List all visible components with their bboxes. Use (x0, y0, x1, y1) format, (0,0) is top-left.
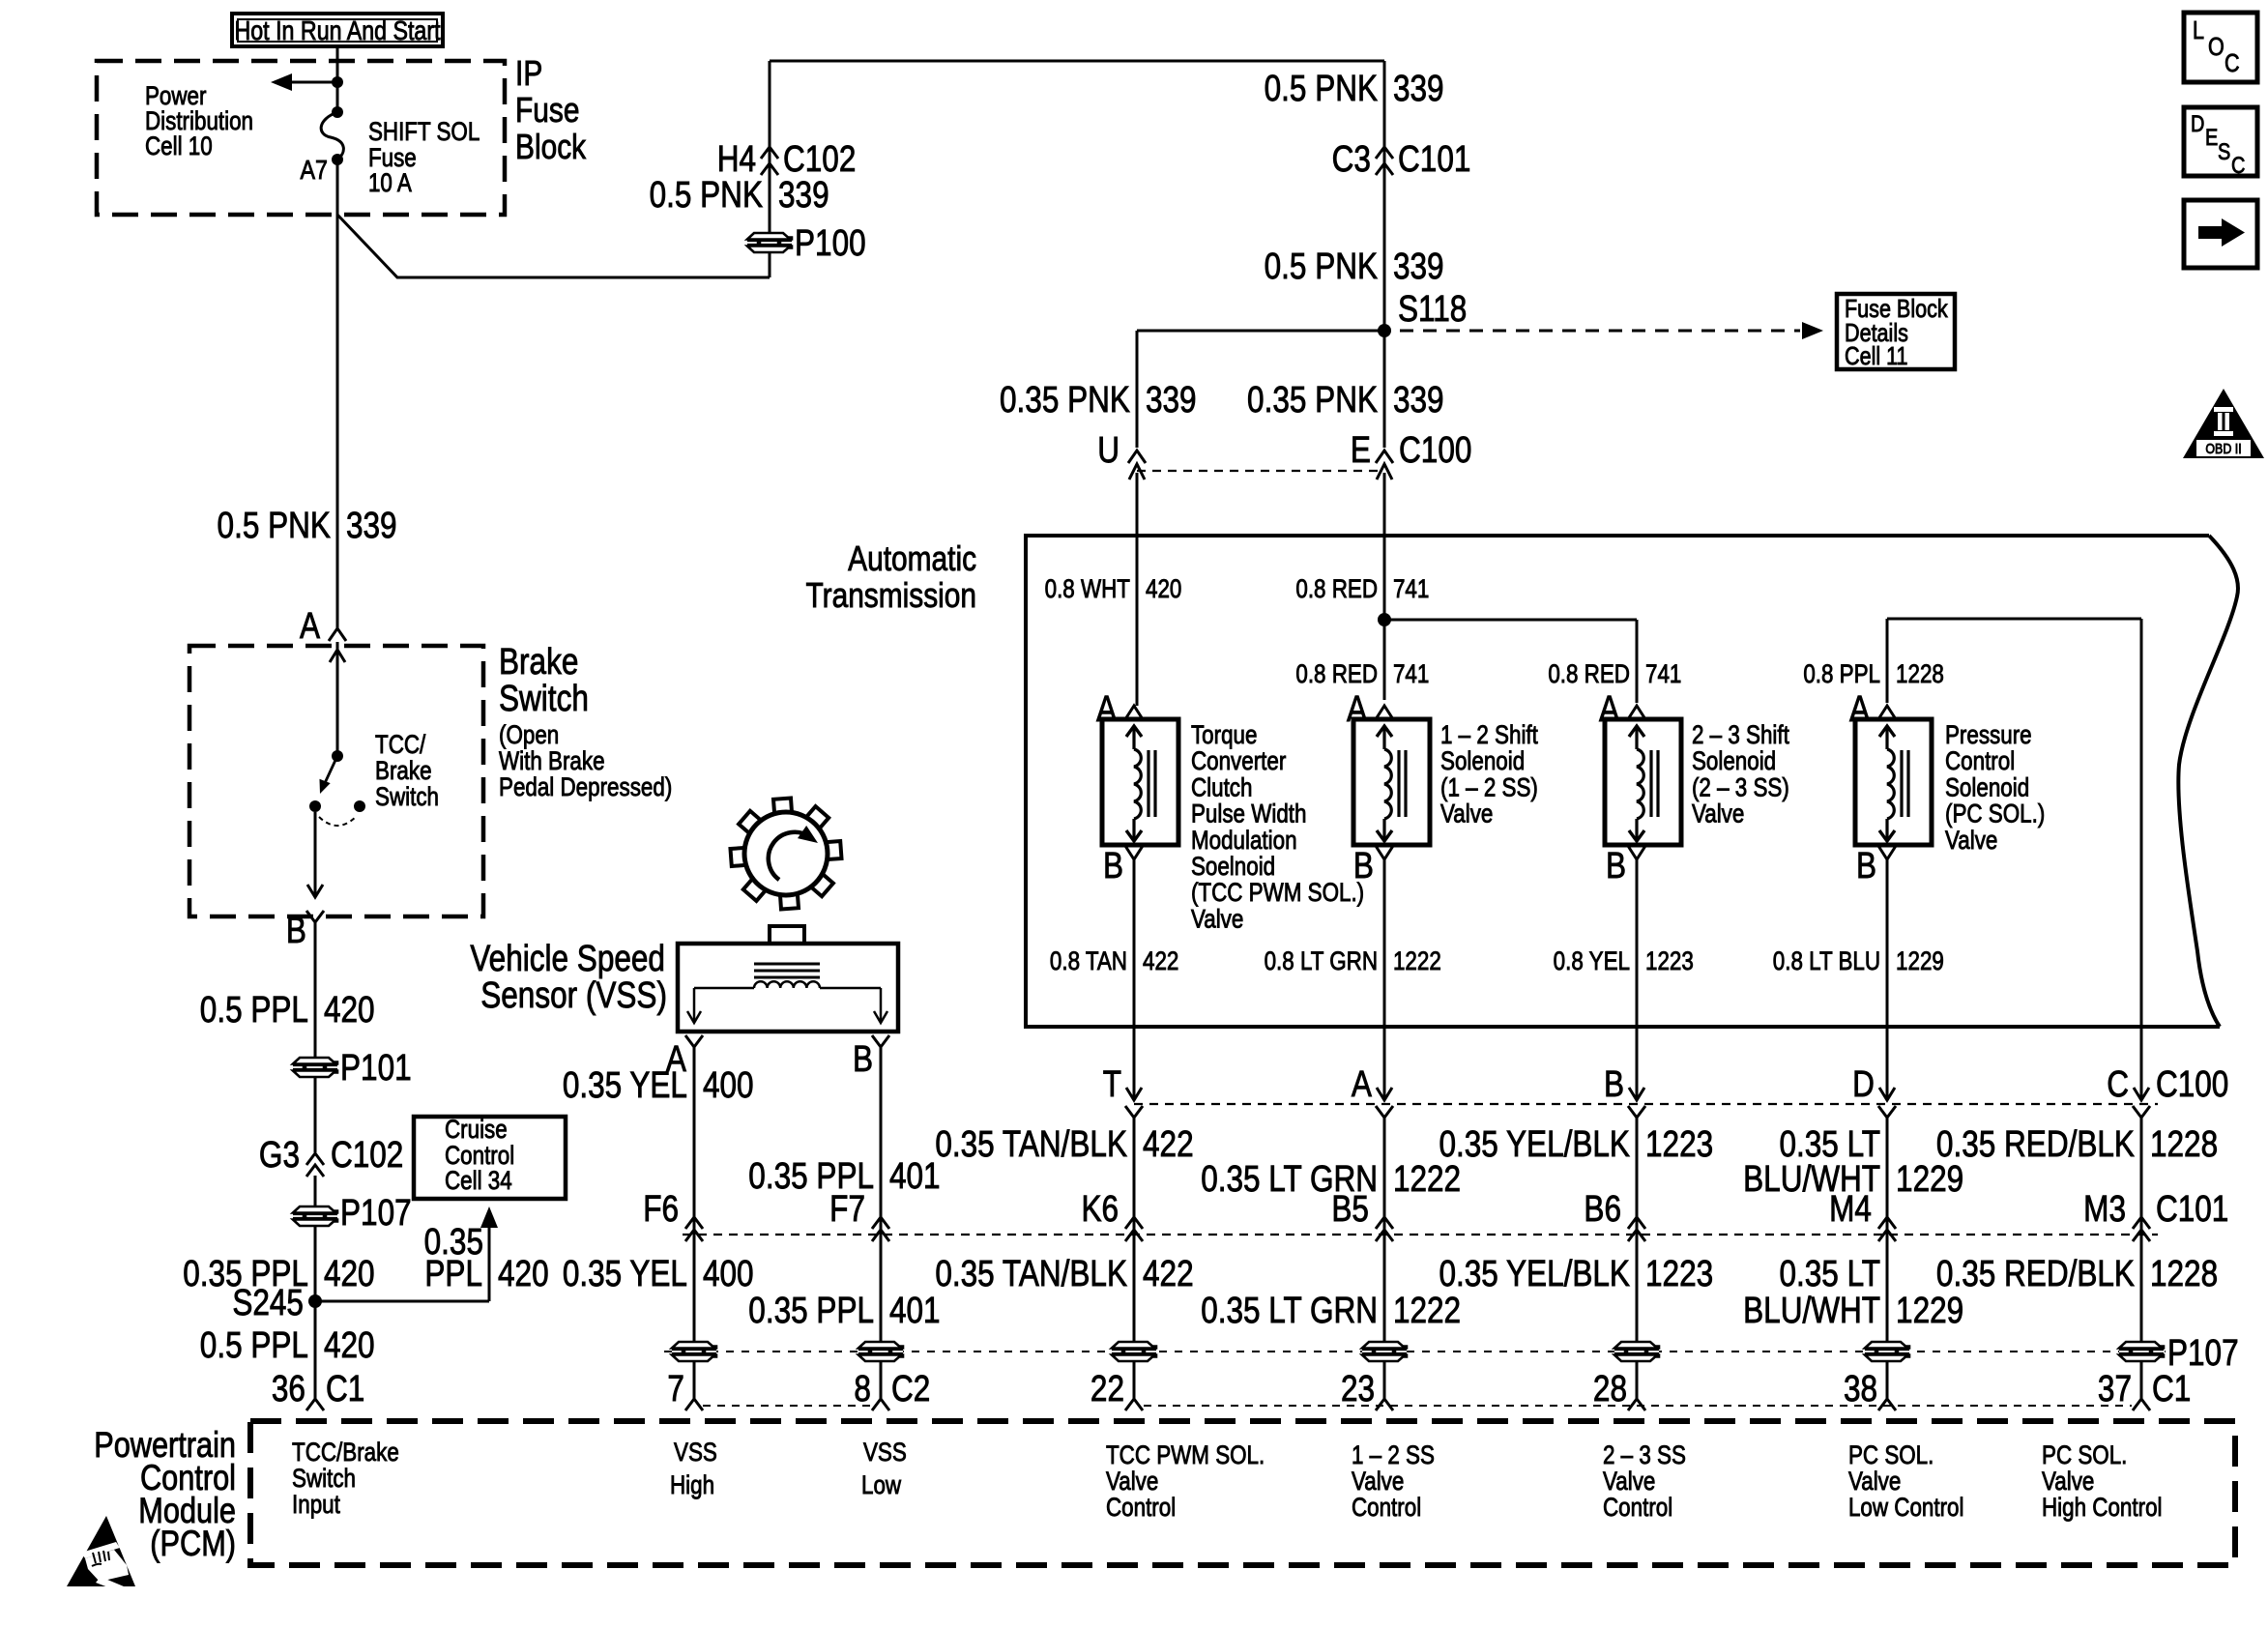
svg-text:Power: Power (145, 82, 206, 110)
svg-text:741: 741 (1393, 660, 1429, 688)
svg-text:1228: 1228 (1896, 660, 1944, 688)
svg-text:0.8 TAN: 0.8 TAN (1050, 947, 1127, 975)
svg-text:C100: C100 (2156, 1063, 2228, 1104)
svg-text:Torque: Torque (1191, 721, 1257, 749)
svg-text:420: 420 (324, 989, 375, 1030)
svg-text:400: 400 (703, 1253, 754, 1294)
svg-text:Soelnoid: Soelnoid (1191, 853, 1275, 881)
svg-text:IP: IP (515, 54, 542, 93)
svg-text:0.8 RED: 0.8 RED (1295, 660, 1378, 688)
svg-text:0.35 YEL: 0.35 YEL (563, 1064, 687, 1105)
svg-text:420: 420 (1146, 575, 1181, 603)
svg-text:PPL: PPL (424, 1253, 482, 1294)
svg-text:B6: B6 (1584, 1188, 1621, 1229)
svg-text:Modulation: Modulation (1191, 827, 1297, 855)
svg-text:0.5 PNK: 0.5 PNK (1265, 68, 1378, 108)
svg-text:0.5 PNK: 0.5 PNK (218, 505, 331, 545)
svg-text:0.35 YEL: 0.35 YEL (563, 1253, 687, 1294)
svg-text:36: 36 (272, 1368, 305, 1409)
svg-text:BLU/WHT: BLU/WHT (1743, 1290, 1880, 1330)
svg-text:(PC SOL.): (PC SOL.) (1945, 800, 2045, 829)
svg-text:0.35 TAN/BLK: 0.35 TAN/BLK (935, 1123, 1127, 1164)
svg-text:0.5 PNK: 0.5 PNK (1265, 246, 1378, 286)
svg-text:S118: S118 (1398, 288, 1467, 329)
svg-text:A: A (1347, 688, 1368, 729)
svg-text:Valve: Valve (1106, 1468, 1158, 1496)
svg-text:Distribution: Distribution (145, 107, 253, 135)
svg-text:339: 339 (1393, 246, 1444, 286)
svg-text:0.35 PNK: 0.35 PNK (1247, 379, 1378, 420)
svg-text:A: A (300, 605, 321, 646)
svg-text:Solenoid: Solenoid (1440, 747, 1525, 775)
svg-text:0.35 TAN/BLK: 0.35 TAN/BLK (935, 1253, 1127, 1294)
svg-text:422: 422 (1143, 1123, 1194, 1164)
svg-text:1222: 1222 (1393, 1290, 1461, 1330)
svg-text:401: 401 (889, 1155, 941, 1196)
svg-text:High Control: High Control (2042, 1494, 2162, 1522)
svg-text:B: B (1103, 845, 1123, 886)
svg-text:1229: 1229 (1896, 947, 1944, 975)
svg-text:0.35 RED/BLK: 0.35 RED/BLK (1936, 1253, 2135, 1294)
svg-text:Valve: Valve (1440, 800, 1493, 829)
svg-text:B5: B5 (1331, 1188, 1369, 1229)
svg-text:0.5 PPL: 0.5 PPL (200, 989, 308, 1030)
svg-text:Automatic: Automatic (848, 539, 976, 578)
svg-text:420: 420 (324, 1324, 375, 1365)
svg-text:S: S (2218, 138, 2230, 164)
svg-text:(1 – 2 SS): (1 – 2 SS) (1440, 774, 1538, 802)
svg-text:0.8 YEL: 0.8 YEL (1554, 947, 1630, 975)
svg-text:K6: K6 (1081, 1188, 1119, 1229)
svg-text:420: 420 (324, 1253, 375, 1294)
svg-text:A: A (1599, 688, 1620, 729)
svg-text:8: 8 (854, 1368, 871, 1409)
svg-text:D: D (2191, 110, 2204, 136)
svg-text:0.35 LT GRN: 0.35 LT GRN (1201, 1290, 1378, 1330)
svg-text:C: C (2224, 49, 2240, 77)
svg-text:SHIFT SOL: SHIFT SOL (368, 118, 480, 146)
svg-text:2 – 3 SS: 2 – 3 SS (1603, 1441, 1686, 1469)
svg-text:0.8 RED: 0.8 RED (1295, 575, 1378, 603)
svg-text:A: A (1352, 1063, 1373, 1104)
svg-text:Input: Input (292, 1491, 340, 1519)
svg-text:TCC PWM SOL.: TCC PWM SOL. (1106, 1441, 1265, 1469)
svg-text:B: B (1856, 845, 1876, 886)
svg-text:C102: C102 (331, 1134, 403, 1175)
svg-text:Cell 34: Cell 34 (445, 1167, 512, 1195)
svg-text:Brake: Brake (499, 641, 578, 682)
svg-text:400: 400 (703, 1064, 754, 1105)
svg-text:D: D (1852, 1063, 1875, 1104)
svg-text:Valve: Valve (2042, 1468, 2094, 1496)
svg-text:OBD II: OBD II (2205, 441, 2241, 456)
svg-text:1229: 1229 (1896, 1290, 1963, 1330)
svg-text:Solenoid: Solenoid (1692, 747, 1776, 775)
svg-text:Brake: Brake (375, 757, 432, 785)
svg-text:0.8 RED: 0.8 RED (1548, 660, 1630, 688)
svg-text:B: B (853, 1038, 873, 1079)
svg-text:T: T (1103, 1063, 1121, 1104)
svg-text:C: C (2231, 152, 2245, 178)
svg-text:0.5 PPL: 0.5 PPL (200, 1324, 308, 1365)
svg-text:C3: C3 (1332, 138, 1371, 179)
svg-text:TCC/Brake: TCC/Brake (292, 1439, 399, 1467)
svg-text:Transmission: Transmission (805, 576, 976, 615)
svg-text:0.35 PNK: 0.35 PNK (1000, 379, 1130, 420)
svg-text:28: 28 (1593, 1368, 1627, 1409)
svg-text:339: 339 (1393, 379, 1444, 420)
svg-text:Block: Block (515, 128, 586, 166)
svg-text:10 A: 10 A (368, 169, 412, 197)
svg-text:1223: 1223 (1645, 1123, 1713, 1164)
svg-text:A7: A7 (301, 156, 328, 185)
svg-text:Valve: Valve (1191, 906, 1243, 934)
svg-text:1 – 2 Shift: 1 – 2 Shift (1440, 721, 1538, 749)
svg-text:U: U (1097, 429, 1119, 470)
svg-text:Pressure: Pressure (1945, 721, 2032, 749)
svg-text:0.35 RED/BLK: 0.35 RED/BLK (1936, 1123, 2135, 1164)
svg-text:Low Control: Low Control (1848, 1494, 1964, 1522)
svg-text:0.35 LT: 0.35 LT (1779, 1253, 1880, 1294)
svg-text:1 – 2 SS: 1 – 2 SS (1352, 1441, 1435, 1469)
svg-text:1223: 1223 (1645, 947, 1694, 975)
svg-text:(TCC PWM SOL.): (TCC PWM SOL.) (1191, 879, 1364, 907)
svg-text:S245: S245 (232, 1282, 304, 1323)
svg-text:C1: C1 (326, 1368, 364, 1409)
svg-text:VSS: VSS (674, 1439, 717, 1467)
svg-text:PC SOL.: PC SOL. (2042, 1441, 2127, 1469)
svg-text:C: C (2107, 1063, 2129, 1104)
svg-text:Clutch: Clutch (1191, 774, 1252, 802)
svg-text:1223: 1223 (1645, 1253, 1713, 1294)
svg-text:0.8 WHT: 0.8 WHT (1045, 575, 1130, 603)
svg-text:P107: P107 (340, 1192, 412, 1233)
svg-text:A: A (1849, 688, 1871, 729)
svg-text:L: L (2193, 16, 2204, 44)
svg-text:E: E (1351, 429, 1371, 470)
svg-text:Cruise: Cruise (445, 1116, 508, 1144)
svg-text:(2 – 3 SS): (2 – 3 SS) (1692, 774, 1789, 802)
svg-text:401: 401 (889, 1290, 941, 1330)
svg-text:0.35 YEL/BLK: 0.35 YEL/BLK (1439, 1123, 1630, 1164)
svg-text:G3: G3 (259, 1134, 300, 1175)
svg-text:339: 339 (346, 505, 397, 545)
svg-text:Valve: Valve (1603, 1468, 1655, 1496)
svg-text:F7: F7 (829, 1188, 865, 1229)
svg-text:A: A (1096, 688, 1118, 729)
svg-text:1222: 1222 (1393, 1158, 1461, 1199)
svg-text:422: 422 (1143, 947, 1178, 975)
svg-text:Switch: Switch (499, 678, 589, 718)
svg-text:Switch: Switch (375, 783, 439, 811)
svg-text:O: O (2208, 33, 2224, 61)
svg-text:Control: Control (445, 1142, 514, 1170)
svg-text:0.5 PNK: 0.5 PNK (650, 174, 763, 215)
svg-text:0.35 YEL/BLK: 0.35 YEL/BLK (1439, 1253, 1630, 1294)
svg-text:Cell 11: Cell 11 (1845, 342, 1908, 370)
svg-text:38: 38 (1844, 1368, 1877, 1409)
svg-text:C101: C101 (1398, 138, 1470, 179)
svg-text:B: B (1606, 845, 1626, 886)
svg-text:(PCM): (PCM) (150, 1524, 236, 1563)
svg-text:1229: 1229 (1896, 1158, 1963, 1199)
svg-text:1228: 1228 (2150, 1253, 2218, 1294)
svg-text:Fuse: Fuse (515, 91, 579, 130)
svg-text:741: 741 (1645, 660, 1681, 688)
svg-text:7: 7 (667, 1368, 684, 1409)
svg-text:F6: F6 (643, 1188, 679, 1229)
svg-text:(Open: (Open (499, 721, 559, 749)
svg-text:C101: C101 (2156, 1188, 2228, 1229)
svg-text:C2: C2 (891, 1368, 930, 1409)
svg-text:M3: M3 (2083, 1188, 2126, 1229)
svg-text:Hot In Run And Start: Hot In Run And Start (234, 16, 440, 45)
svg-text:23: 23 (1341, 1368, 1375, 1409)
svg-text:0.8 PPL: 0.8 PPL (1803, 660, 1880, 688)
svg-text:Pulse Width: Pulse Width (1191, 800, 1307, 829)
svg-text:Control: Control (1603, 1494, 1672, 1522)
svg-text:With Brake: With Brake (499, 747, 605, 775)
svg-text:P100: P100 (795, 222, 866, 263)
svg-text:Valve: Valve (1352, 1468, 1404, 1496)
svg-text:Sensor (VSS): Sensor (VSS) (480, 974, 667, 1015)
svg-text:0.35 PPL: 0.35 PPL (748, 1290, 874, 1330)
svg-text:PC SOL.: PC SOL. (1848, 1441, 1934, 1469)
svg-text:1222: 1222 (1393, 947, 1441, 975)
svg-text:Cell 10: Cell 10 (145, 132, 213, 160)
svg-text:Control: Control (1945, 747, 2015, 775)
svg-text:B: B (286, 910, 306, 950)
svg-text:Control: Control (1106, 1494, 1176, 1522)
svg-text:Fuse: Fuse (368, 144, 417, 172)
svg-text:Low: Low (861, 1471, 901, 1499)
svg-text:Vehicle Speed: Vehicle Speed (470, 938, 665, 978)
svg-text:420: 420 (498, 1253, 549, 1294)
svg-text:E: E (2205, 124, 2218, 150)
svg-text:M4: M4 (1829, 1188, 1872, 1229)
svg-text:22: 22 (1090, 1368, 1124, 1409)
svg-text:339: 339 (1146, 379, 1197, 420)
svg-text:TCC/: TCC/ (375, 731, 425, 759)
svg-text:C100: C100 (1399, 429, 1471, 470)
svg-text:Converter: Converter (1191, 747, 1286, 775)
svg-text:0.8 LT GRN: 0.8 LT GRN (1265, 947, 1378, 975)
svg-text:741: 741 (1393, 575, 1429, 603)
svg-text:VSS: VSS (863, 1439, 907, 1467)
svg-text:C1: C1 (2152, 1368, 2191, 1409)
svg-text:2 – 3 Shift: 2 – 3 Shift (1692, 721, 1789, 749)
svg-text:P101: P101 (340, 1047, 412, 1088)
svg-text:Solenoid: Solenoid (1945, 774, 2029, 802)
svg-text:Pedal Depressed): Pedal Depressed) (499, 773, 672, 801)
svg-text:High: High (670, 1471, 714, 1499)
svg-text:1228: 1228 (2150, 1123, 2218, 1164)
svg-text:Switch: Switch (292, 1465, 356, 1493)
svg-text:37: 37 (2098, 1368, 2132, 1409)
svg-text:0.8 LT BLU: 0.8 LT BLU (1773, 947, 1880, 975)
svg-text:Control: Control (1352, 1494, 1421, 1522)
svg-text:Valve: Valve (1692, 800, 1744, 829)
svg-text:339: 339 (1393, 68, 1444, 108)
svg-text:Valve: Valve (1848, 1468, 1901, 1496)
svg-text:Valve: Valve (1945, 827, 1997, 855)
svg-text:B: B (1604, 1063, 1624, 1104)
svg-text:339: 339 (778, 174, 829, 215)
svg-text:422: 422 (1143, 1253, 1194, 1294)
